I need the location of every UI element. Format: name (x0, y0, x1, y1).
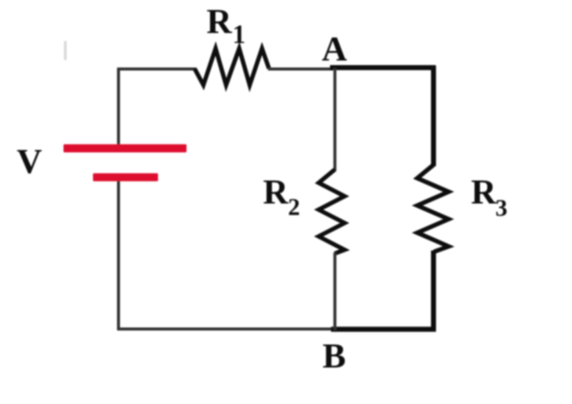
wire: R3 branch lower (thick) (431, 251, 436, 332)
wire: thick top (node A to top-right corner) (330, 65, 436, 70)
wire: thick bottom (node B to bottom-right corner) (331, 327, 436, 332)
svg-text:R: R (207, 2, 233, 41)
wire: bottom horizontal (left corner to node B) (117, 328, 334, 331)
artifact smudge top-left (64, 41, 67, 60)
wire: top horizontal (R1 to node A) (268, 68, 333, 71)
svg-text:3: 3 (495, 196, 507, 222)
svg-text:B: B (323, 336, 346, 375)
resistor R1 (195, 49, 269, 86)
resistor R3 (417, 165, 448, 252)
svg-text:2: 2 (288, 195, 300, 221)
wire: R3 branch upper (thick) (431, 66, 436, 167)
wire: R2 branch upper (333, 68, 336, 171)
wire: left vertical upper (top corner to battery) (117, 68, 120, 145)
svg-text:A: A (322, 30, 348, 69)
wire: R2 branch lower (333, 253, 336, 331)
resistor R2 (319, 170, 345, 254)
svg-text:V: V (17, 142, 42, 181)
svg-text:1: 1 (233, 20, 246, 49)
wire: top left horizontal (battery to R1) (117, 68, 196, 71)
battery V plate long (64, 144, 187, 152)
svg-text:R: R (471, 173, 497, 212)
svg-text:R: R (263, 173, 289, 212)
wire: left vertical lower (battery to bottom corner) (117, 181, 120, 330)
battery V plate short (93, 173, 158, 181)
